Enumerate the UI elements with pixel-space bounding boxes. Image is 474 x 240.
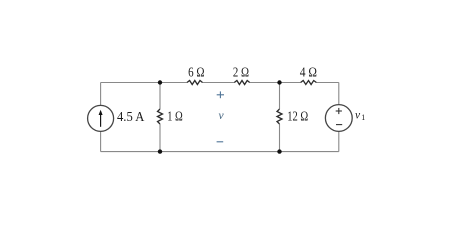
svg-text:6 Ω: 6 Ω — [188, 64, 204, 79]
svg-text:v: v — [355, 110, 361, 122]
svg-text:1 Ω: 1 Ω — [167, 109, 183, 124]
svg-text:2 Ω: 2 Ω — [233, 64, 249, 79]
svg-text:1: 1 — [361, 113, 365, 122]
svg-text:12 Ω: 12 Ω — [287, 109, 308, 124]
svg-text:v: v — [219, 110, 225, 122]
svg-text:4 Ω: 4 Ω — [300, 64, 317, 79]
svg-text:4.5 A: 4.5 A — [117, 109, 145, 124]
